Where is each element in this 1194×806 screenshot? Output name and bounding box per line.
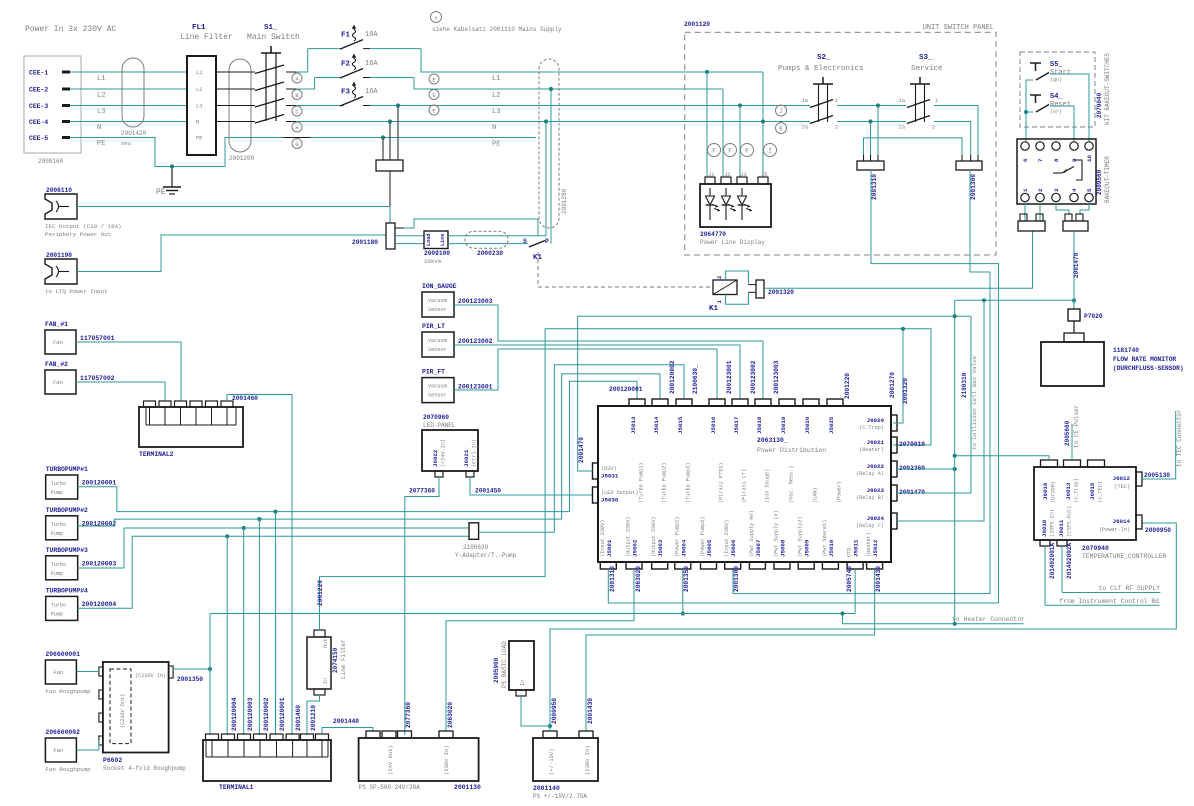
connector J5005 (Power Pump2) [701, 562, 717, 569]
LED symbol [725, 188, 727, 196]
wire TP1 to bus [78, 487, 570, 512]
svg-text:4: 4 [1071, 188, 1078, 192]
svg-text:N: N [97, 124, 101, 132]
wire S2 lower drop to connector [870, 122, 872, 156]
wire L3 rail to unit switch panel [397, 105, 810, 107]
svg-text:Pump: Pump [51, 571, 63, 577]
svg-text:H: H [295, 125, 298, 132]
svg-text:(Vac. Meas.): (Vac. Meas.) [789, 466, 795, 503]
wire fan1 to terminal2 [76, 342, 181, 401]
svg-text:2000230: 2000230 [477, 250, 503, 257]
flow rate monitor 1181740 [1041, 342, 1104, 386]
svg-text:2: 2 [932, 124, 935, 131]
svg-text:206600001: 206600001 [45, 651, 80, 658]
svg-text:S4_: S4_ [1050, 93, 1063, 101]
svg-text:(v_Trap): (v_Trap) [1074, 478, 1080, 503]
svg-text:J5004: J5004 [680, 539, 687, 557]
svg-text:200120002: 200120002 [263, 697, 270, 731]
svg-text:Power Distribution: Power Distribution [757, 447, 826, 454]
svg-text:117057001: 117057001 [80, 335, 115, 342]
wire J5031 riser 2001470 [578, 316, 971, 471]
connector below timer left [1020, 214, 1027, 221]
connector J5007 (Pwr Supply HV) [749, 562, 765, 569]
wire line filter in to terminal1 [307, 695, 320, 735]
junction L3 to J3 drop [738, 103, 742, 107]
wire 2001310 down [871, 170, 999, 603]
junction TP1 drop [273, 510, 277, 514]
kit bakeout switches frame 2079040 [1020, 52, 1095, 127]
svg-text:(Pirani FTSS): (Pirani FTSS) [719, 463, 725, 503]
wire Y adapter right to J5015 riser [479, 365, 684, 533]
svg-text:J5010: J5010 [828, 539, 835, 557]
svg-text:(C.Trap): (C.Trap) [859, 425, 884, 431]
wire TP2 bus to J5014 riser [562, 374, 660, 519]
wire S2 upper drop to connector [877, 106, 879, 156]
svg-text:2000950: 2000950 [551, 698, 558, 724]
svg-text:200120001: 200120001 [609, 386, 643, 393]
svg-text:(Input 230V): (Input 230V) [600, 520, 606, 557]
svg-text:J5012: J5012 [872, 539, 879, 557]
svg-text:F: F [728, 148, 732, 155]
svg-text:(24V Out): (24V Out) [387, 745, 394, 775]
junction on N at 2001180 drop [388, 119, 392, 123]
svg-text:(LED Output): (LED Output) [601, 490, 638, 496]
svg-text:J6012: J6012 [1113, 475, 1131, 482]
svg-text:CEE-4: CEE-4 [29, 119, 48, 126]
svg-text:7: 7 [1037, 158, 1044, 162]
S2 blade upper [810, 100, 833, 108]
svg-text:2001350: 2001350 [177, 676, 203, 683]
svg-text:2063020: 2063020 [635, 566, 642, 592]
svg-text:2001200: 2001200 [229, 155, 255, 162]
adapter 2100630 Y-Adapter/T.-Pump [469, 523, 479, 540]
svg-text:(Turbo Pump1): (Turbo Pump1) [639, 463, 645, 503]
pin stubs left connector [863, 155, 865, 161]
svg-text:P: P [545, 238, 549, 245]
svg-text:to CLT RF SUPPLY: to CLT RF SUPPLY [1099, 585, 1161, 592]
connector 2001300 panel [956, 161, 982, 170]
svg-text:siehe Kabelsatz 2001110 Mains: siehe Kabelsatz 2001110 Mains Supply [432, 26, 562, 33]
relay coil K1 [713, 280, 737, 295]
svg-text:Pumps & Electronics: Pumps & Electronics [778, 65, 864, 73]
node I indicator [764, 144, 777, 157]
svg-text:2001320: 2001320 [768, 289, 794, 296]
svg-text:2063130_: 2063130_ [757, 437, 788, 444]
svg-text:2001210: 2001210 [310, 705, 317, 731]
svg-text:J6021: J6021 [867, 439, 885, 446]
socket P6602 4-fold Roughpump [103, 662, 169, 753]
note siehe Kabelsatz 2001110 Mains Supply [431, 12, 442, 23]
svg-text:2001220: 2001220 [844, 373, 851, 399]
timer pin 3 [1052, 193, 1060, 201]
svg-text:L2: L2 [97, 92, 105, 100]
S2 blade lower [810, 116, 833, 124]
junction PE ground [170, 164, 174, 168]
wire PIR_LT to J5017 [454, 345, 740, 399]
svg-text:PE: PE [492, 141, 500, 149]
svg-text:Line: Line [440, 234, 446, 246]
svg-text:2001430: 2001430 [875, 566, 882, 592]
svg-text:Socket 4-fold Roughpump: Socket 4-fold Roughpump [103, 765, 186, 772]
svg-text:117057002: 117057002 [80, 375, 115, 382]
svg-text:(2SPS-In): (2SPS-In) [1050, 509, 1056, 537]
svg-text:Service: Service [911, 65, 943, 73]
svg-text:(Relay A): (Relay A) [856, 471, 884, 477]
svg-text:2001140: 2001140 [533, 785, 560, 792]
svg-text:S1_: S1_ [264, 24, 278, 32]
svg-text:200120001: 200120001 [82, 480, 117, 487]
wire coil pin1 loop [726, 292, 749, 304]
connector J5031 (DSV) [593, 463, 599, 479]
svg-text:2070960: 2070960 [423, 414, 449, 421]
connector P7020 [1073, 301, 1075, 310]
junction N rail at J5 drop [761, 119, 765, 123]
svg-text:1: 1 [1022, 188, 1029, 192]
svg-text:(Relay C): (Relay C) [856, 523, 884, 529]
svg-text:(Output 230V): (Output 230V) [651, 517, 657, 557]
LED symbol [741, 188, 743, 196]
svg-text:(C230V Out): (C230V Out) [120, 694, 126, 728]
svg-text:2063020: 2063020 [447, 702, 454, 728]
timer pin 7 [1036, 142, 1044, 150]
wire J5002 2063020 [446, 569, 634, 731]
svg-text:PE: PE [156, 188, 166, 197]
svg-text:20kVA: 20kVA [424, 258, 442, 265]
svg-text:Vacuum: Vacuum [428, 384, 447, 390]
bakeout timer 2009560 [1017, 139, 1096, 204]
svg-text:(Power): (Power) [837, 481, 843, 503]
svg-text:G: G [295, 141, 298, 148]
wire J6021 to J5030 2001450 [470, 477, 593, 495]
terminal strip TERMINAL2 2001460 [144, 401, 156, 407]
svg-text:2009100: 2009100 [424, 250, 450, 257]
svg-text:10: 10 [1086, 155, 1093, 162]
svg-text:ION_GAUGE: ION_GAUGE [422, 283, 457, 290]
svg-text:L3: L3 [196, 103, 203, 110]
svg-text:(Pwr Supply LV): (Pwr Supply LV) [774, 510, 780, 557]
timer pin 6 [1021, 142, 1029, 150]
svg-text:(230V In): (230V In) [584, 745, 591, 775]
S3 blade lower [907, 116, 930, 124]
svg-text:CEE-5: CEE-5 [29, 135, 48, 142]
svg-text:2001280: 2001280 [561, 188, 568, 214]
svg-text:200120003: 200120003 [247, 697, 254, 731]
node J [776, 105, 787, 116]
connector J5011 CTD [847, 562, 863, 569]
svg-text:J5006: J5006 [730, 539, 737, 557]
svg-text:J5011: J5011 [853, 539, 860, 557]
connector below timer right [1065, 214, 1072, 221]
svg-text:2001310: 2001310 [609, 566, 616, 592]
svg-text:200123002: 200123002 [750, 360, 757, 394]
svg-text:(Pwr Spare1): (Pwr Spare1) [822, 520, 828, 557]
svg-text:2074150: 2074150 [332, 647, 339, 673]
svg-text:CEE-1: CEE-1 [29, 70, 48, 77]
fuse F2 16A with riser from L2 [296, 78, 315, 90]
svg-text:200123003: 200123003 [773, 360, 780, 394]
svg-text:from Instrument Control Bd: from Instrument Control Bd [1059, 598, 1159, 605]
wire basic load to +/-15V rail [521, 696, 550, 726]
wire F2 output down to L2 rail [414, 78, 723, 90]
terminal strip TERMINAL1 [206, 734, 219, 740]
svg-text:8: 8 [1053, 158, 1060, 162]
connector J5017 (Pirani LT) [732, 399, 748, 406]
svg-text:J6023: J6023 [867, 487, 885, 494]
timer pin 2 [1036, 193, 1044, 201]
wire K1 to bakeout connector [764, 231, 1033, 288]
svg-text:2100310: 2100310 [961, 372, 968, 398]
connector J6022 (Relay A) [891, 461, 897, 477]
svg-text:201402002A: 201402002A [1066, 543, 1073, 579]
wire L1 corner down to J5 drop [762, 72, 764, 177]
svg-text:F3: F3 [341, 89, 351, 97]
fuse F3 16A inline on L3 [296, 105, 344, 107]
svg-text:Turbo: Turbo [51, 481, 67, 487]
wire rail 2001350 to J5011 [210, 613, 855, 615]
svg-text:Turbo: Turbo [51, 562, 67, 568]
svg-text:2064770: 2064770 [700, 231, 726, 238]
junction on L3 at 2001180 drop [396, 103, 400, 107]
svg-text:2: 2 [835, 124, 838, 131]
connector J6011 (CSPS-Out) [1057, 540, 1067, 546]
svg-text:200120001: 200120001 [279, 697, 286, 731]
wires timer pins 1-2 to connector [1024, 202, 1026, 221]
svg-text:Reset: Reset [1050, 101, 1071, 109]
wire PE from CEE-5 [70, 138, 536, 167]
svg-text:Pump: Pump [51, 531, 63, 537]
svg-text:200120004: 200120004 [231, 697, 238, 731]
svg-text:J5031: J5031 [601, 473, 619, 480]
svg-text:Out: Out [323, 639, 329, 648]
svg-text:FAN_#1: FAN_#1 [45, 321, 68, 328]
svg-text:K1: K1 [709, 305, 719, 313]
svg-text:F1: F1 [341, 32, 351, 40]
wire TP3 to bus [78, 528, 469, 568]
svg-text:2009560: 2009560 [1096, 169, 1103, 195]
svg-text:TURBOPUMP#2: TURBOPUMP#2 [46, 507, 88, 514]
wire rail from junction to relay area [955, 299, 1074, 301]
switch S5 Start [1030, 62, 1041, 64]
connector 2001320 [756, 280, 764, 298]
svg-text:1181740: 1181740 [1113, 347, 1139, 354]
connector J5003 (Output 230V) [652, 562, 668, 569]
svg-text:(Input 230V): (Input 230V) [724, 520, 730, 557]
wire LTQ input to 2001180 connector [77, 235, 386, 272]
svg-text:2001460: 2001460 [232, 395, 258, 402]
node B [292, 90, 302, 100]
wire 2001220 line filter out riser [320, 329, 932, 630]
wire drop tp1 [275, 512, 277, 735]
wire TP1 bus to J5013 riser [570, 381, 638, 511]
svg-text:Sensor: Sensor [428, 307, 447, 313]
svg-text:N: N [196, 119, 199, 126]
connector J6013 (v_Trap) [1064, 460, 1081, 467]
wire J6022 to common riser [897, 468, 955, 470]
connector J5001 (Input 230V) [600, 562, 616, 569]
svg-text:L3: L3 [97, 108, 105, 116]
wire terminal1 tab1 riser [209, 614, 211, 736]
wire J6016 feed [955, 456, 1049, 460]
svg-text:J: J [779, 108, 783, 115]
svg-text:J6022: J6022 [867, 463, 885, 470]
svg-text:Sensor: Sensor [428, 347, 447, 353]
svg-text:S: S [523, 238, 527, 245]
svg-text:to LTQ Power Input: to LTQ Power Input [45, 288, 108, 295]
wire L3 after S2 to S3 [837, 105, 906, 107]
svg-text:2077360: 2077360 [409, 488, 435, 495]
connector J5004 (Power Pump1) [675, 562, 691, 569]
svg-text:Turbo: Turbo [51, 602, 67, 608]
svg-text:2005130: 2005130 [1144, 472, 1170, 479]
svg-text:J5001: J5001 [606, 539, 613, 557]
svg-text:2001450: 2001450 [475, 488, 501, 495]
svg-text:CTD: CTD [847, 548, 853, 557]
svg-text:2001270: 2001270 [889, 372, 896, 398]
wires timer pins 3-5 to connector [1056, 202, 1069, 214]
svg-text:J5015: J5015 [677, 416, 684, 434]
svg-text:(CSPS-Out): (CSPS-Out) [1067, 506, 1073, 537]
svg-text:2000950: 2000950 [1145, 527, 1171, 534]
svg-text:PS +/-15V/2.75A: PS +/-15V/2.75A [533, 793, 587, 800]
svg-text:2001300: 2001300 [733, 566, 740, 592]
svg-text:J6022: J6022 [432, 449, 439, 467]
svg-text:(v_TEC): (v_TEC) [1098, 481, 1104, 503]
svg-text:J5013: J5013 [630, 416, 637, 434]
svg-text:2001440: 2001440 [333, 718, 359, 725]
connector J5012 (Heater) [867, 562, 883, 569]
svg-text:(DrVDH): (DrVDH) [1051, 481, 1057, 503]
svg-text:(CAN): (CAN) [813, 487, 819, 503]
wire S5-S4 left common [1026, 80, 1033, 142]
wire TP4 to bus [78, 536, 469, 608]
timer pin 9 [1070, 142, 1078, 150]
svg-text:Fan: Fan [53, 379, 63, 386]
svg-text:F2: F2 [341, 61, 351, 69]
svg-text:to TEC Connector: to TEC Connector [1176, 409, 1183, 467]
node G [292, 139, 302, 149]
svg-text:PE: PE [97, 140, 105, 148]
svg-text:J5030: J5030 [601, 497, 619, 504]
svg-text:to Heater Connector: to Heater Connector [952, 616, 1025, 623]
connector J5020 (CAN) [803, 399, 819, 406]
wire J5012 2001430 [586, 569, 875, 731]
wire after S3 lower to connector [934, 122, 971, 156]
connector J6021 (Heater) [891, 437, 897, 453]
node F2 indicator [724, 144, 737, 157]
svg-text:J6011: J6011 [1058, 519, 1065, 537]
connector J5010 (Pwr Spare1) [822, 562, 838, 569]
node F1 indicator [708, 144, 721, 157]
svg-text:BAKEOUT-TIMER: BAKEOUT-TIMER [1104, 156, 1111, 203]
svg-text:TURBOPUMP#4: TURBOPUMP#4 [46, 587, 88, 594]
power supply PS +/-15V/2.75A 2001140 [543, 731, 557, 738]
junction after S2 lower [868, 119, 872, 123]
svg-text:(Power Pump1): (Power Pump1) [674, 517, 680, 557]
connector J5006 (Input 230V) [725, 562, 741, 569]
svg-text:2a: 2a [801, 124, 808, 131]
svg-text:Fan Roughpump: Fan Roughpump [45, 688, 91, 695]
svg-text:2070940: 2070940 [1082, 545, 1109, 552]
wire drop tp3 [243, 528, 245, 735]
svg-text:J5018: J5018 [756, 416, 763, 434]
svg-text:TERMINAL2: TERMINAL2 [139, 451, 174, 458]
svg-text:KIT BAKEOUT-SWITCHES: KIT BAKEOUT-SWITCHES [1104, 53, 1111, 125]
svg-text:2: 2 [1037, 188, 1044, 192]
node F3 indicator [741, 144, 754, 157]
connector J5025 (Power) [827, 399, 843, 406]
wire connector to S contact rail [404, 219, 538, 236]
cable 2001200 [229, 59, 251, 152]
svg-text:200120002: 200120002 [669, 360, 676, 394]
wire L2 from CEE-2 to FL1 [70, 88, 187, 90]
svg-text:(Power-In): (Power-In) [1099, 527, 1130, 533]
wire L1 from CEE-1 to FL1 [70, 71, 187, 73]
svg-text:J6014: J6014 [1113, 518, 1131, 525]
svg-text:2079040: 2079040 [1096, 92, 1103, 118]
connector J5018 (Ion Gauge) [755, 399, 771, 406]
svg-text:L2: L2 [196, 86, 203, 93]
wire F1 output down to L1 rail [421, 49, 763, 72]
timer pin 5 [1085, 193, 1093, 201]
svg-text:2100630_: 2100630_ [692, 364, 699, 394]
connector J5016 (Pirani FTSS) [709, 399, 725, 406]
svg-text:neu: neu [121, 140, 131, 147]
svg-text:2070010: 2070010 [899, 441, 925, 448]
wire PE through switch area [283, 137, 310, 139]
svg-text:2001310: 2001310 [871, 174, 878, 200]
svg-text:16A: 16A [365, 88, 378, 96]
svg-text:Sensor: Sensor [428, 393, 447, 399]
connector J5014 (Turbo Pump2) [652, 399, 668, 406]
wire L2 to J2 drop [722, 89, 724, 177]
switch blade S1 pole [216, 88, 255, 90]
svg-text:L1: L1 [492, 75, 500, 83]
ground symbol PE [171, 167, 173, 188]
svg-text:Pump: Pump [51, 490, 63, 496]
junction 2000950 [548, 724, 552, 728]
wire J6010 to instrument control [1044, 546, 1046, 605]
svg-text:J5008: J5008 [780, 539, 787, 557]
svg-text:FL1: FL1 [192, 24, 206, 32]
junction P6602 to terminal drop [208, 667, 212, 671]
connector J6020 (C.Trap) [891, 415, 897, 431]
wire fan roughpump2 to P6602 [76, 749, 99, 751]
power distribution 2063130 [598, 406, 891, 562]
connector J6015 (v_TEC) [1088, 460, 1105, 467]
svg-text:Line Filter: Line Filter [340, 639, 347, 679]
svg-text:1a: 1a [801, 97, 808, 104]
svg-text:(DSV): (DSV) [601, 466, 617, 472]
svg-text:PS SP-500 24V/20A: PS SP-500 24V/20A [359, 784, 421, 791]
timer pin 10 [1085, 142, 1093, 150]
svg-text:Periphery Power Out: Periphery Power Out [45, 231, 111, 238]
timer pin 4 [1070, 193, 1078, 201]
svg-text:2006110: 2006110 [46, 187, 72, 194]
wire fan roughpump1 to P6602 [76, 671, 99, 673]
svg-text:Vacuum: Vacuum [428, 298, 447, 304]
wire S4 right to pin 9 [1050, 106, 1074, 142]
svg-text:(Pirani LT): (Pirani LT) [742, 469, 748, 503]
node K [776, 123, 787, 134]
svg-text:Y-Adapter/T.-Pump: Y-Adapter/T.-Pump [455, 552, 517, 559]
wire S5 right to pin 10 [1050, 74, 1089, 142]
svg-text:(Output 230V): (Output 230V) [626, 517, 632, 557]
svg-text:I: I [768, 148, 772, 155]
svg-text:10A: 10A [365, 31, 378, 39]
svg-text:2100630: 2100630 [463, 544, 489, 551]
svg-text:N: N [492, 124, 496, 132]
svg-text:F: F [745, 148, 749, 155]
